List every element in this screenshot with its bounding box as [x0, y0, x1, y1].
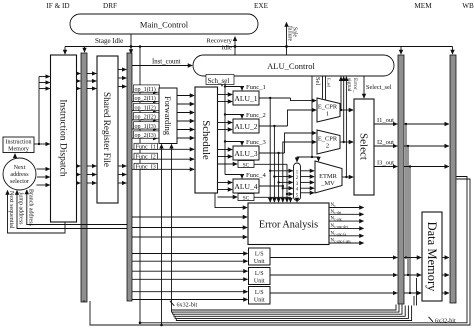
operand wire op_2(I1) [132, 94, 160, 102]
svg-text:op_2(I3): op_2(I3) [135, 132, 156, 139]
svg-text:Nc-unc-det: Nc-unc-det [331, 224, 348, 229]
stage label DRF [103, 2, 117, 10]
wire ETMR to Select [342, 176, 353, 178]
svg-text:DRF: DRF [103, 2, 117, 10]
wire Recovery Idle [206, 37, 236, 55]
wire Nc-unc-f-uns output [329, 239, 364, 244]
svg-text:Unit: Unit [254, 259, 265, 265]
svg-text:ETMR: ETMR [319, 173, 337, 180]
svg-text:Func_3: Func_3 [246, 139, 266, 146]
svg-text:op_2(I2): op_2(I2) [135, 114, 156, 121]
svg-text:op_1(I3): op_1(I3) [135, 123, 156, 130]
block Schedule [195, 87, 218, 193]
svg-text:Sel: Sel [314, 77, 321, 85]
svg-text:address: address [10, 172, 29, 178]
wire writeback riser into Forwarding left [160, 144, 163, 326]
label Func_2 [246, 112, 266, 119]
svg-text:Sch_sel: Sch_sel [208, 77, 230, 85]
svg-text:1: 1 [326, 111, 329, 118]
wire Sel [297, 76, 321, 162]
svg-text:Nc-det: Nc-det [331, 210, 342, 215]
wire Branch address [27, 189, 127, 226]
label Func_4 [246, 172, 266, 179]
next address selector [3, 158, 36, 190]
svg-text:ALU_4: ALU_4 [234, 182, 257, 191]
block Instruction Dispatch [51, 55, 77, 222]
ALU_2 [233, 119, 259, 133]
svg-text:SC: SC [243, 195, 250, 201]
svg-text:Shared Register File: Shared Register File [102, 92, 112, 167]
checker SC under ALU_3 [238, 161, 254, 169]
wire SC4 output [254, 197, 291, 202]
wire Func_I1 [132, 143, 194, 150]
svg-text:Main_Control: Main_Control [140, 20, 189, 30]
svg-text:MEM: MEM [414, 2, 432, 10]
block Forwarding [159, 88, 177, 144]
svg-text:Select_sel: Select_sel [366, 84, 392, 91]
svg-text:L/S: L/S [255, 252, 264, 258]
wire writeback riser into Forwarding right [171, 144, 173, 310]
svg-text:Func_1: Func_1 [246, 84, 266, 91]
wire selector to Instruction Dispatch [37, 169, 50, 185]
svg-text:Nc-unc-fa: Nc-unc-fa [331, 231, 347, 236]
block L/S Unit 1 [249, 248, 271, 265]
svg-text:failure: failure [286, 26, 293, 42]
operand wire op_2(I2) [132, 113, 160, 121]
wire E_CPR1 to Select [340, 109, 353, 111]
wire L/S 1 to Data Memory [270, 257, 421, 259]
wire ALU_1 output [259, 97, 316, 101]
svg-text:IF & ID: IF & ID [46, 2, 69, 10]
wire ALU_4 output [259, 142, 316, 187]
svg-text:Data Memory: Data Memory [425, 222, 439, 293]
wire E_CPR2 to Select [340, 141, 353, 143]
wire Sale failure [285, 23, 297, 56]
svg-text:Recovery: Recovery [206, 38, 232, 45]
stage label WB [462, 2, 474, 10]
svg-text:op_1(I1): op_1(I1) [135, 86, 156, 93]
operand wire op_2(I3) [132, 131, 160, 139]
svg-text:Inst_count: Inst_count [152, 59, 181, 66]
svg-text:Next sequential: Next sequential [8, 191, 14, 229]
svg-text:op_1(I2): op_1(I2) [135, 104, 156, 111]
label 6x32-bit right [429, 317, 456, 325]
wire selector to Instruction Memory [14, 154, 16, 158]
writeback bus inner loop [140, 177, 467, 323]
svg-text:I2_out: I2_out [377, 139, 394, 146]
wire Nc-unc-det output [329, 224, 364, 229]
stage label EXE [254, 2, 269, 10]
wire Schedule to Error Analysis [215, 193, 247, 208]
wire drop ALU_3 to Error Analysis and voter [277, 153, 292, 202]
svg-text:Func_I1: Func_I1 [136, 144, 156, 150]
wire Main_Control long drop [139, 45, 142, 324]
wire comparator selects [323, 76, 332, 100]
svg-text:Func_4: Func_4 [246, 172, 266, 179]
operand wire op_1(I1) [132, 85, 160, 93]
operand wire op_1(I3) [132, 122, 160, 130]
svg-text:ALU_1: ALU_1 [234, 94, 257, 103]
wire Func_I3 [132, 163, 194, 170]
svg-text:Memory: Memory [8, 147, 29, 153]
wires register to L/S units [132, 254, 248, 300]
block L/S Unit 3 [249, 287, 271, 305]
voter ETMR_MV [315, 161, 342, 193]
wire Jump address [17, 191, 127, 229]
wire I2 drop to memory stage [407, 145, 409, 276]
svg-text:WB: WB [462, 2, 474, 10]
svg-text:Nc-unc-f-uns: Nc-unc-f-uns [331, 239, 352, 244]
label Func_1 [246, 84, 266, 91]
svg-text:Branch address: Branch address [28, 189, 34, 226]
wire SC3 output [254, 164, 293, 202]
wire Select_sel [364, 76, 392, 98]
block L/S Unit 2 [249, 268, 271, 285]
svg-text:ALU_2: ALU_2 [234, 122, 257, 131]
svg-text:Func_2: Func_2 [246, 112, 266, 119]
Main_Control unit [70, 14, 258, 34]
svg-text:L/S: L/S [255, 271, 264, 277]
wire Nc output [329, 203, 364, 208]
ALU_3 [233, 146, 259, 160]
wire L/S 2 to Data Memory [270, 274, 421, 276]
block Error Analysis [248, 203, 329, 245]
pipeline register bar IF/DRF [81, 53, 87, 302]
svg-text:Select: Select [358, 133, 370, 160]
voter select mux [294, 163, 301, 201]
pipeline register bar EXE/MEM [398, 55, 404, 304]
svg-text:op_2(I1): op_2(I1) [135, 95, 156, 102]
stage label MEM [414, 2, 432, 10]
svg-text:E_sel: E_sel [327, 78, 332, 88]
block Shared Register File [97, 56, 118, 203]
svg-text:Unit: Unit [254, 297, 265, 303]
wire I3 drop to memory stage [409, 165, 411, 294]
wire ALU_2 output [259, 110, 316, 127]
ALU_4 [233, 179, 259, 193]
pipeline register bar MEM/WB [450, 55, 456, 303]
svg-text:Instruction: Instruction [6, 140, 32, 146]
svg-text:Nc: Nc [331, 203, 337, 208]
svg-text:Error Analysis: Error Analysis [259, 220, 318, 231]
svg-text:2: 2 [326, 143, 329, 150]
svg-text:Func_I2: Func_I2 [136, 154, 156, 160]
label Func_3 [246, 139, 266, 146]
pipeline register bar DRF/EXE [127, 53, 132, 301]
svg-text:Instruction Dispatch: Instruction Dispatch [58, 99, 68, 177]
ALU_1 [233, 91, 259, 105]
comparator E_CPR 1 [317, 98, 340, 122]
wire I3_out [374, 160, 449, 167]
wires Error signal to ALU_Control [340, 77, 358, 178]
wire Func_I2 [132, 153, 194, 160]
wire drop ALU_4 to voter [282, 186, 293, 202]
wires Instruction Dispatch / register / SRF bottom cluster [77, 166, 127, 183]
svg-text:ALU_3: ALU_3 [234, 149, 257, 158]
wire ALU_3 output [259, 133, 316, 154]
comparator E_CPR 2 [317, 130, 340, 154]
block Select [354, 99, 374, 195]
wire Sch_sel [206, 75, 234, 87]
wire Instruction Memory to Instruction Dispatch [34, 77, 50, 146]
svg-text:I1_out: I1_out [377, 117, 394, 124]
wire Nc-unc output [329, 217, 364, 222]
wire I1 drop to memory stage [405, 123, 407, 259]
svg-text:Func_I3: Func_I3 [136, 164, 156, 170]
svg-text:ALU_Control: ALU_Control [267, 61, 315, 71]
wire mux bottom to Error Analysis [296, 201, 298, 203]
svg-text:Forwarding: Forwarding [163, 96, 172, 136]
wire I1_out [374, 117, 449, 124]
wire I2_out [374, 139, 449, 146]
stage label IF & ID [46, 2, 69, 10]
svg-text:SC: SC [243, 162, 250, 168]
wires register to Error Analysis [132, 217, 247, 237]
wires mux outputs to ETMR [301, 171, 315, 193]
svg-text:Unit: Unit [254, 278, 265, 284]
svg-text:_MV: _MV [320, 180, 335, 187]
writeback bus outer loop [84, 179, 470, 325]
wire L/S 3 to Data Memory [270, 292, 421, 294]
svg-text:Jump address: Jump address [18, 192, 24, 225]
operand wire op_1(I2) [132, 103, 160, 111]
wire Nc-unc-fa output [329, 231, 364, 236]
wire Func select distribution [224, 83, 242, 178]
svg-text:6x32-bit: 6x32-bit [177, 303, 198, 309]
svg-text:E_CPR: E_CPR [318, 136, 338, 143]
wires Data Memory to WB register [442, 258, 449, 294]
svg-text:Error_: Error_ [352, 78, 358, 93]
svg-text:Stage Idle: Stage Idle [95, 37, 123, 45]
wires Forwarding to Schedule [177, 96, 194, 139]
block Instruction Memory [3, 137, 34, 153]
writeback bus bundle [172, 278, 417, 321]
svg-text:EXE: EXE [254, 2, 269, 10]
wire Next sequential [8, 191, 66, 234]
svg-text:L/S: L/S [255, 290, 264, 296]
wires Instruction Dispatch / register / SRF top cluster [77, 70, 127, 89]
svg-text:selector: selector [10, 179, 29, 185]
wire drop ALU_2 to Error Analysis and voter [273, 126, 293, 202]
svg-text:Schedule: Schedule [200, 120, 212, 160]
svg-text:Nc-unc: Nc-unc [331, 217, 343, 222]
svg-text:signal: signal [346, 78, 352, 92]
checker SC under ALU_4 [238, 194, 254, 202]
ALU_Control unit [193, 55, 394, 76]
svg-text:Next: Next [14, 165, 26, 171]
label 6x32-bit left [170, 301, 198, 309]
wire drop ALU_1 to Error Analysis and voter [269, 98, 293, 202]
wire Nc-det output [329, 210, 364, 215]
wires Schedule to ALUs [218, 95, 238, 198]
block Data Memory [422, 212, 442, 301]
svg-text:Idle: Idle [222, 45, 232, 52]
svg-text:6x32-bit: 6x32-bit [435, 319, 456, 325]
svg-text:E_CPR: E_CPR [318, 104, 338, 111]
svg-text:I3_out: I3_out [377, 160, 394, 167]
wire Inst_count [132, 59, 192, 66]
wire Stage Idle bus [65, 34, 453, 54]
